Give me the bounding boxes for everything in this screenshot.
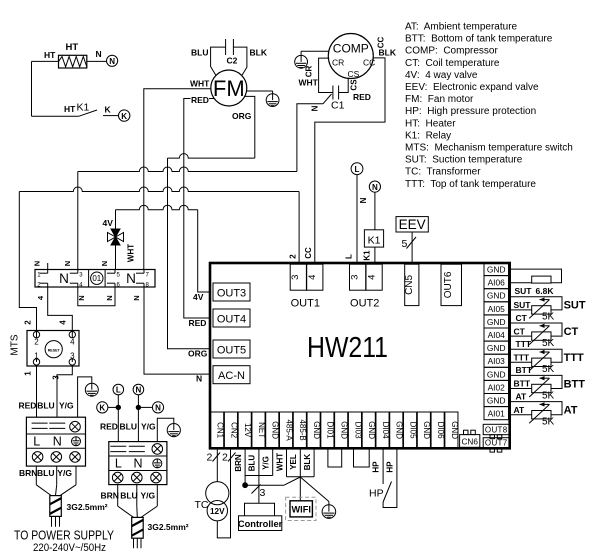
svg-text:3G2.5mm²: 3G2.5mm² — [148, 522, 189, 532]
svg-text:01: 01 — [92, 274, 101, 283]
wire blk2 down — [118, 485, 158, 518]
svg-text:FM: FM — [213, 76, 245, 101]
svg-text:AT: AT — [514, 405, 526, 415]
svg-text:L: L — [33, 435, 40, 449]
svg-text:AI05: AI05 — [488, 304, 506, 314]
svg-text:DI04: DI04 — [381, 422, 390, 439]
wire EEV to CN5 — [411, 232, 413, 263]
svg-text:N: N — [196, 374, 202, 384]
wire bus N — [78, 104, 323, 270]
marker 2 wires CN1 — [207, 452, 221, 464]
label ORG — [232, 111, 252, 121]
svg-text:BLU: BLU — [120, 421, 137, 431]
wire junction to WIFI — [299, 477, 301, 501]
svg-text:BLU: BLU — [37, 468, 54, 478]
wire CR to C1 — [319, 58, 333, 92]
svg-text:L: L — [355, 165, 360, 174]
svg-text:K1: K1 — [368, 234, 381, 246]
svg-text:GND: GND — [487, 291, 506, 301]
wire K to junction — [108, 406, 118, 408]
label TO POWER SUPPLY — [14, 529, 115, 543]
svg-text:CC: CC — [377, 37, 386, 49]
svg-text:OUT7: OUT7 — [485, 439, 508, 448]
ground at COMP — [295, 55, 308, 68]
label AT bottom — [514, 405, 526, 415]
wire bus 4V — [116, 205, 210, 292]
label AT top — [516, 391, 528, 401]
ground blk1 — [85, 383, 98, 396]
svg-text:C2: C2 — [227, 56, 238, 66]
svg-text:K1: Relay: K1: Relay — [405, 130, 451, 141]
svg-text:2: 2 — [34, 338, 39, 347]
label HT above — [66, 42, 79, 53]
transformer TC — [206, 482, 229, 521]
svg-text:BLU: BLU — [120, 491, 137, 501]
svg-text:RED: RED — [189, 318, 207, 328]
bottom terminal row — [211, 412, 459, 448]
connector CN6 — [460, 430, 480, 447]
svg-text:Y/G: Y/G — [57, 468, 72, 478]
label BRN blk1 — [19, 468, 37, 478]
terminal N circle mid — [133, 384, 144, 395]
label 5K CT — [542, 338, 555, 349]
svg-text:YEL: YEL — [289, 454, 298, 470]
switch MTS — [27, 331, 79, 367]
label CT bold right — [564, 326, 579, 338]
wire valve to pin5 — [115, 245, 117, 270]
label BTT top — [516, 365, 533, 375]
box WIFI — [286, 497, 316, 520]
connector OUT8 — [483, 424, 509, 438]
svg-text:WIFI: WIFI — [292, 505, 311, 515]
svg-text:WHT: WHT — [275, 453, 284, 471]
label N pin5 — [100, 261, 109, 266]
right AI terminal column — [484, 263, 509, 420]
label C2 — [227, 56, 238, 66]
wire mts pin4 top — [71, 331, 73, 338]
svg-text:5K: 5K — [542, 417, 555, 428]
svg-text:4: 4 — [367, 275, 378, 280]
wire N diagonal — [323, 94, 332, 104]
svg-text:485-A: 485-A — [284, 419, 293, 441]
svg-text:CN1: CN1 — [216, 422, 225, 439]
svg-text:N: N — [100, 261, 109, 266]
svg-text:SUT: Suction temperature: SUT: Suction temperature — [405, 155, 523, 166]
label BLU2 blk1 — [37, 468, 54, 478]
svg-text:AI06: AI06 — [488, 278, 506, 288]
svg-text:K: K — [105, 105, 112, 115]
label YEL rot — [289, 454, 298, 470]
wire HP right — [383, 448, 397, 507]
valve EEV — [396, 217, 428, 232]
label 3 rot mts — [52, 375, 61, 380]
wire yg blk2 gnd — [157, 418, 174, 441]
marker 3 wires — [252, 485, 266, 500]
svg-text:220-240V~/50Hz: 220-240V~/50Hz — [33, 542, 106, 554]
label CT top — [516, 313, 528, 323]
relay K1 — [364, 230, 383, 247]
svg-text:L: L — [116, 386, 121, 395]
svg-text:CR: CR — [332, 58, 344, 68]
label RED blk2 — [100, 421, 118, 431]
label BLU rot — [248, 455, 257, 472]
svg-text:ORG: ORG — [232, 111, 252, 121]
svg-text:BLU: BLU — [37, 401, 54, 411]
svg-text:6.8K: 6.8K — [536, 286, 555, 296]
label BLU — [191, 48, 208, 58]
label TTT bottom — [514, 353, 530, 363]
connector OUT1 — [290, 264, 323, 309]
svg-text:DI01: DI01 — [326, 422, 335, 439]
label CC rot top — [377, 37, 386, 49]
label YG blk2 — [141, 421, 156, 431]
label N rot k1 — [359, 197, 368, 203]
label HW211 — [307, 332, 388, 364]
svg-text:RED: RED — [19, 401, 37, 411]
svg-text:SUT: SUT — [514, 300, 532, 310]
wire COMP ground — [301, 51, 329, 55]
svg-text:HP: HP — [385, 461, 394, 473]
svg-text:GND: GND — [487, 265, 506, 275]
label 4V valve — [103, 218, 114, 228]
svg-text:BRN: BRN — [19, 468, 37, 478]
svg-text:2: 2 — [24, 320, 33, 325]
wire yg blk1 gnd — [78, 377, 92, 417]
label BLK — [250, 48, 268, 58]
cable 3G2.5 left — [50, 496, 62, 527]
capacitor C1 — [333, 86, 339, 100]
wire K1 to OUT2 — [374, 247, 376, 263]
svg-text:DI05: DI05 — [408, 422, 417, 439]
svg-text:TTT: TTT — [514, 353, 530, 363]
svg-text:BTT: BTT — [516, 365, 533, 375]
switch K1 blade — [79, 110, 97, 116]
svg-text:BTT: BTT — [564, 378, 586, 390]
label YG2 blk2 — [141, 491, 156, 501]
svg-text:N: N — [133, 457, 142, 471]
label YG2 blk1 — [57, 468, 72, 478]
svg-text:K: K — [99, 404, 105, 413]
svg-text:COMP: COMP — [333, 42, 369, 56]
junction dot L — [116, 405, 120, 409]
svg-text:CN6: CN6 — [462, 437, 479, 446]
svg-text:AI01: AI01 — [488, 409, 506, 419]
label ORG at OUT5 — [188, 349, 208, 359]
svg-text:2: 2 — [207, 452, 213, 464]
svg-text:3: 3 — [52, 375, 61, 380]
label WHT rot2 — [275, 453, 284, 471]
svg-text:N: N — [311, 105, 320, 111]
wire CN1 to TC — [216, 448, 218, 481]
svg-text:BTT: BTT — [514, 379, 531, 389]
svg-text:N: N — [109, 57, 115, 66]
svg-text:MTS: Mechanism temperature sw: MTS: Mechanism temperature switch — [405, 143, 573, 154]
svg-text:4: 4 — [59, 320, 68, 325]
svg-text:AT: AT — [564, 405, 578, 417]
wire C1 to CS — [339, 78, 349, 92]
label MTS — [10, 334, 21, 355]
svg-text:BLU: BLU — [248, 455, 257, 472]
svg-text:N: N — [155, 404, 161, 413]
label N rot comp — [311, 105, 320, 111]
wire N to junction — [138, 406, 152, 408]
wire mts pin3 down — [57, 359, 72, 418]
ground at FM — [266, 94, 279, 107]
label N below pin4 — [77, 295, 86, 300]
svg-text:OUT1: OUT1 — [291, 298, 320, 310]
label TTT bold right — [564, 352, 584, 364]
label K1 rot — [362, 250, 371, 261]
label SUT bold right — [564, 300, 586, 312]
svg-text:TTT: TTT — [564, 352, 584, 364]
svg-text:GND: GND — [487, 343, 506, 353]
label 5K BTT — [542, 390, 555, 401]
svg-text:OUT5: OUT5 — [217, 344, 246, 356]
junction dot BRN — [243, 483, 248, 488]
svg-text:OUT4: OUT4 — [217, 313, 246, 325]
svg-text:N: N — [126, 271, 136, 286]
svg-text:485-B: 485-B — [298, 419, 307, 440]
svg-text:COMP: Compressor: COMP: Compressor — [405, 46, 498, 57]
svg-text:K: K — [121, 112, 127, 121]
svg-text:N: N — [59, 271, 69, 286]
svg-text:FM: Fan motor: FM: Fan motor — [405, 94, 474, 105]
svg-text:2: 2 — [222, 452, 228, 464]
svg-text:EEV: Electronic expand valve: EEV: Electronic expand valve — [405, 82, 539, 93]
terminal N circle right — [152, 402, 163, 413]
label TTT top — [516, 339, 532, 349]
svg-text:SUT: SUT — [564, 300, 586, 312]
wire pin8 to AC-N — [144, 287, 210, 374]
svg-text:AI04: AI04 — [488, 330, 506, 340]
label 6.8K — [536, 286, 555, 296]
svg-text:K1: K1 — [362, 250, 371, 261]
label 5K AT — [542, 417, 555, 428]
label WHT comp — [299, 78, 319, 88]
wire dot to wifi junction — [245, 477, 300, 485]
wire mts pin1 down — [36, 359, 38, 418]
svg-text:OUT2: OUT2 — [350, 298, 379, 310]
label 5K TTT — [542, 364, 555, 375]
svg-text:3: 3 — [260, 487, 266, 499]
wire YEL 485B — [299, 448, 301, 477]
terminal L circle — [113, 384, 124, 395]
label SUT bottom — [514, 300, 532, 310]
svg-text:RESET: RESET — [48, 349, 61, 353]
compressor COMP — [328, 34, 375, 80]
svg-text:WHT: WHT — [127, 244, 136, 262]
merge bar 3core — [245, 475, 273, 477]
svg-text:BRN: BRN — [101, 491, 119, 501]
label 2 rot mts — [24, 320, 33, 325]
label CR rot — [305, 66, 314, 78]
label HP rot right — [385, 461, 394, 473]
svg-text:SUT: SUT — [515, 286, 533, 296]
svg-text:BRN: BRN — [234, 454, 243, 472]
svg-text:GND: GND — [340, 421, 349, 439]
wire L to OUT2 — [356, 175, 358, 263]
label BTT bottom — [514, 379, 531, 389]
terminal block 01 — [35, 270, 155, 289]
label YG rot — [261, 456, 270, 470]
svg-text:OUT6: OUT6 — [443, 271, 454, 298]
ground blk2 — [167, 424, 180, 437]
svg-text:HT: HT — [64, 104, 76, 114]
label N pin3 — [63, 261, 72, 266]
heater HT — [59, 55, 87, 68]
label L rot — [345, 254, 354, 259]
svg-text:GND: GND — [487, 369, 506, 379]
svg-text:TTT: Top of tank temperature: TTT: Top of tank temperature — [405, 179, 536, 190]
board HW211 outline — [210, 263, 510, 448]
svg-text:5K: 5K — [542, 390, 555, 401]
label 4V at OUT3 — [193, 292, 204, 302]
power terminal block 1 — [26, 417, 85, 466]
svg-text:TTT: TTT — [516, 339, 532, 349]
fan motor FM — [211, 70, 247, 106]
svg-text:ORG: ORG — [188, 349, 208, 359]
svg-text:5K: 5K — [542, 312, 555, 323]
label 1 rot mts — [24, 371, 33, 376]
terminal OUT4 — [213, 309, 250, 327]
label K — [105, 105, 112, 115]
svg-text:HP: HP — [372, 461, 381, 473]
svg-text:3G2.5mm²: 3G2.5mm² — [67, 502, 108, 512]
wire FM ground — [247, 91, 273, 94]
svg-text:HP: HP — [369, 488, 384, 500]
svg-text:WHT: WHT — [190, 79, 210, 89]
svg-text:HT: HT — [44, 50, 56, 60]
wire RED — [184, 99, 215, 319]
svg-text:CN5: CN5 — [404, 274, 415, 294]
label RED at OUT4 — [189, 318, 207, 328]
connector OUT6 — [441, 264, 462, 305]
svg-text:L: L — [345, 254, 354, 259]
svg-text:AI03: AI03 — [488, 356, 506, 366]
svg-text:MTS: MTS — [10, 334, 21, 355]
label HP — [369, 488, 384, 500]
svg-text:12V: 12V — [243, 423, 252, 438]
svg-text:4V: 4V — [193, 292, 204, 302]
svg-text:GND: GND — [487, 317, 506, 327]
wire TC to CN2 — [217, 448, 230, 538]
svg-text:GND: GND — [422, 421, 431, 439]
terminal N circle — [107, 55, 118, 66]
svg-text:Y/G: Y/G — [141, 421, 156, 431]
svg-text:CT: CT — [564, 326, 579, 338]
wire WHT — [144, 89, 211, 270]
thermistor BTT loop — [509, 375, 563, 397]
label CC rot bottom — [304, 247, 313, 259]
wire N to K1 — [374, 192, 376, 230]
terminal OUT3 — [213, 283, 250, 301]
legend text — [405, 22, 573, 190]
wire BRN — [244, 448, 246, 483]
label BTT bold right — [564, 378, 586, 390]
marker 2 wires CN2 — [222, 452, 236, 464]
label N below pin8 — [132, 295, 141, 300]
label CS rot — [350, 79, 359, 91]
svg-text:N: N — [105, 295, 114, 300]
wire blk1 down — [36, 466, 76, 496]
wire BLK gnd — [313, 448, 315, 477]
wire WHT 485A — [286, 448, 288, 477]
wire pin2 to MTS pin4 — [48, 287, 73, 331]
svg-text:AT: AT — [516, 391, 528, 401]
thermistor TTT loop — [509, 349, 563, 371]
label 4 rot mts — [59, 320, 68, 325]
wire L down — [117, 395, 119, 442]
label RED fm — [191, 95, 210, 105]
svg-text:HT: Heater: HT: Heater — [405, 118, 456, 129]
svg-text:Y/G: Y/G — [59, 401, 74, 411]
svg-text:CC: CC — [304, 247, 313, 259]
svg-text:N: N — [96, 49, 102, 59]
label N pin1 — [33, 261, 42, 266]
svg-text:AT: Ambient temperature: AT: Ambient temperature — [405, 22, 518, 33]
svg-text:RED: RED — [191, 95, 209, 105]
label TC — [195, 499, 209, 511]
svg-text:N: N — [77, 295, 86, 300]
wire to K — [103, 115, 118, 117]
label N at AC-N — [196, 374, 202, 384]
terminal L top circle — [351, 163, 363, 175]
svg-text:NET: NET — [257, 422, 266, 438]
svg-text:N: N — [359, 197, 368, 203]
wire to switch K1 — [32, 115, 79, 117]
svg-text:TC: Transformer: TC: Transformer — [405, 167, 481, 178]
connector OUT2 — [350, 264, 383, 309]
thermistor AT loop — [509, 402, 563, 424]
svg-text:N: N — [63, 261, 72, 266]
label 3G2.5mm right — [148, 522, 189, 532]
wire valve top — [115, 210, 117, 229]
svg-text:WHT: WHT — [299, 78, 319, 88]
svg-text:K1: K1 — [77, 102, 90, 114]
svg-text:N: N — [136, 386, 142, 395]
ground wifi — [322, 505, 336, 519]
wire C2 right to FM — [233, 47, 247, 75]
svg-text:Controller: Controller — [238, 519, 283, 529]
resistor 6.8K loop — [509, 269, 562, 283]
connector OUT7 — [483, 438, 509, 452]
svg-text:DI06: DI06 — [436, 422, 445, 439]
svg-text:4V: 4 way valve: 4V: 4 way valve — [405, 70, 478, 81]
label 4 below pin2 — [36, 295, 45, 300]
terminal AC-N — [213, 366, 250, 384]
svg-text:CR: CR — [305, 66, 314, 78]
switch HP blade — [383, 482, 391, 503]
power terminal block 2 — [109, 442, 167, 485]
merge bar wifi — [287, 476, 315, 478]
svg-text:GND: GND — [487, 396, 506, 406]
svg-text:TC: TC — [195, 499, 209, 511]
label SUT 68k row — [515, 286, 533, 296]
svg-text:CT: CT — [514, 326, 526, 336]
label C1 — [331, 100, 345, 112]
wire HT to N — [87, 60, 107, 62]
svg-text:Y/G: Y/G — [261, 456, 270, 470]
svg-text:CS: CS — [350, 79, 359, 91]
svg-text:CS: CS — [348, 69, 360, 79]
thermistor SUT loop — [509, 297, 563, 319]
wire ORG — [168, 96, 255, 348]
svg-text:2: 2 — [289, 254, 298, 259]
thermistor CT loop — [509, 323, 563, 345]
terminal N top circle — [369, 181, 380, 192]
controller bracket — [245, 503, 275, 516]
svg-text:N: N — [53, 435, 62, 449]
